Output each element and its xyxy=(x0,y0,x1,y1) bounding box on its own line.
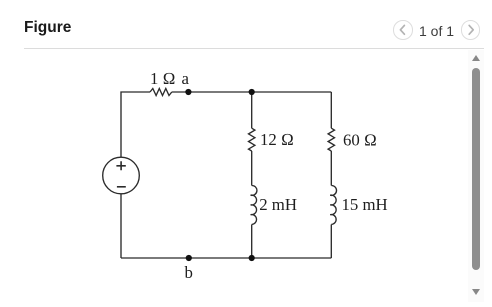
svg-text:2 mH: 2 mH xyxy=(259,195,297,214)
wire bottom xyxy=(121,257,331,259)
scrollbar track xyxy=(468,50,484,302)
scrollbar up arrow xyxy=(472,55,480,61)
resistor R 12ohm zigzag xyxy=(249,128,255,151)
source minus sign xyxy=(117,186,126,188)
wire top from resistor to right corner xyxy=(172,91,331,93)
node b dot xyxy=(186,255,192,261)
scrollbar thumb xyxy=(472,68,481,270)
wire top-left segment xyxy=(121,92,150,157)
svg-text:b: b xyxy=(185,263,193,282)
svg-text:60 Ω: 60 Ω xyxy=(343,131,377,150)
scrollbar down arrow xyxy=(472,289,480,295)
wire branch2 upper segment xyxy=(330,92,332,128)
resistor R 60ohm zigzag xyxy=(328,128,334,151)
resistor R 1ohm zigzag xyxy=(150,89,172,96)
header title "Figure" xyxy=(24,19,71,37)
junction dot top of branch1 xyxy=(249,89,255,95)
voltage source circle xyxy=(103,157,140,194)
pagination next button xyxy=(461,20,481,40)
svg-text:12 Ω: 12 Ω xyxy=(260,130,294,149)
wire branch1 upper segment xyxy=(251,92,253,128)
pagination prev button xyxy=(393,20,413,40)
wire left-bottom segment from source to bottom-left corner xyxy=(120,194,122,258)
svg-text:1 Ω: 1 Ω xyxy=(150,69,175,88)
pagination label "1 of 1" xyxy=(403,23,470,39)
svg-text:a: a xyxy=(182,69,190,88)
wire branch1 middle segment xyxy=(251,151,253,186)
inductor L 2mH coil xyxy=(251,185,257,224)
wire branch1 lower segment xyxy=(251,225,253,259)
junction dot bottom of branch1 xyxy=(249,255,255,261)
header divider rule xyxy=(24,48,484,49)
node a dot xyxy=(185,89,191,95)
inductor L 15mH coil xyxy=(330,185,336,224)
source plus sign xyxy=(116,161,125,170)
wire branch2 lower segment xyxy=(330,225,332,259)
svg-text:15 mH: 15 mH xyxy=(342,195,388,214)
wire branch2 middle segment xyxy=(330,151,332,186)
